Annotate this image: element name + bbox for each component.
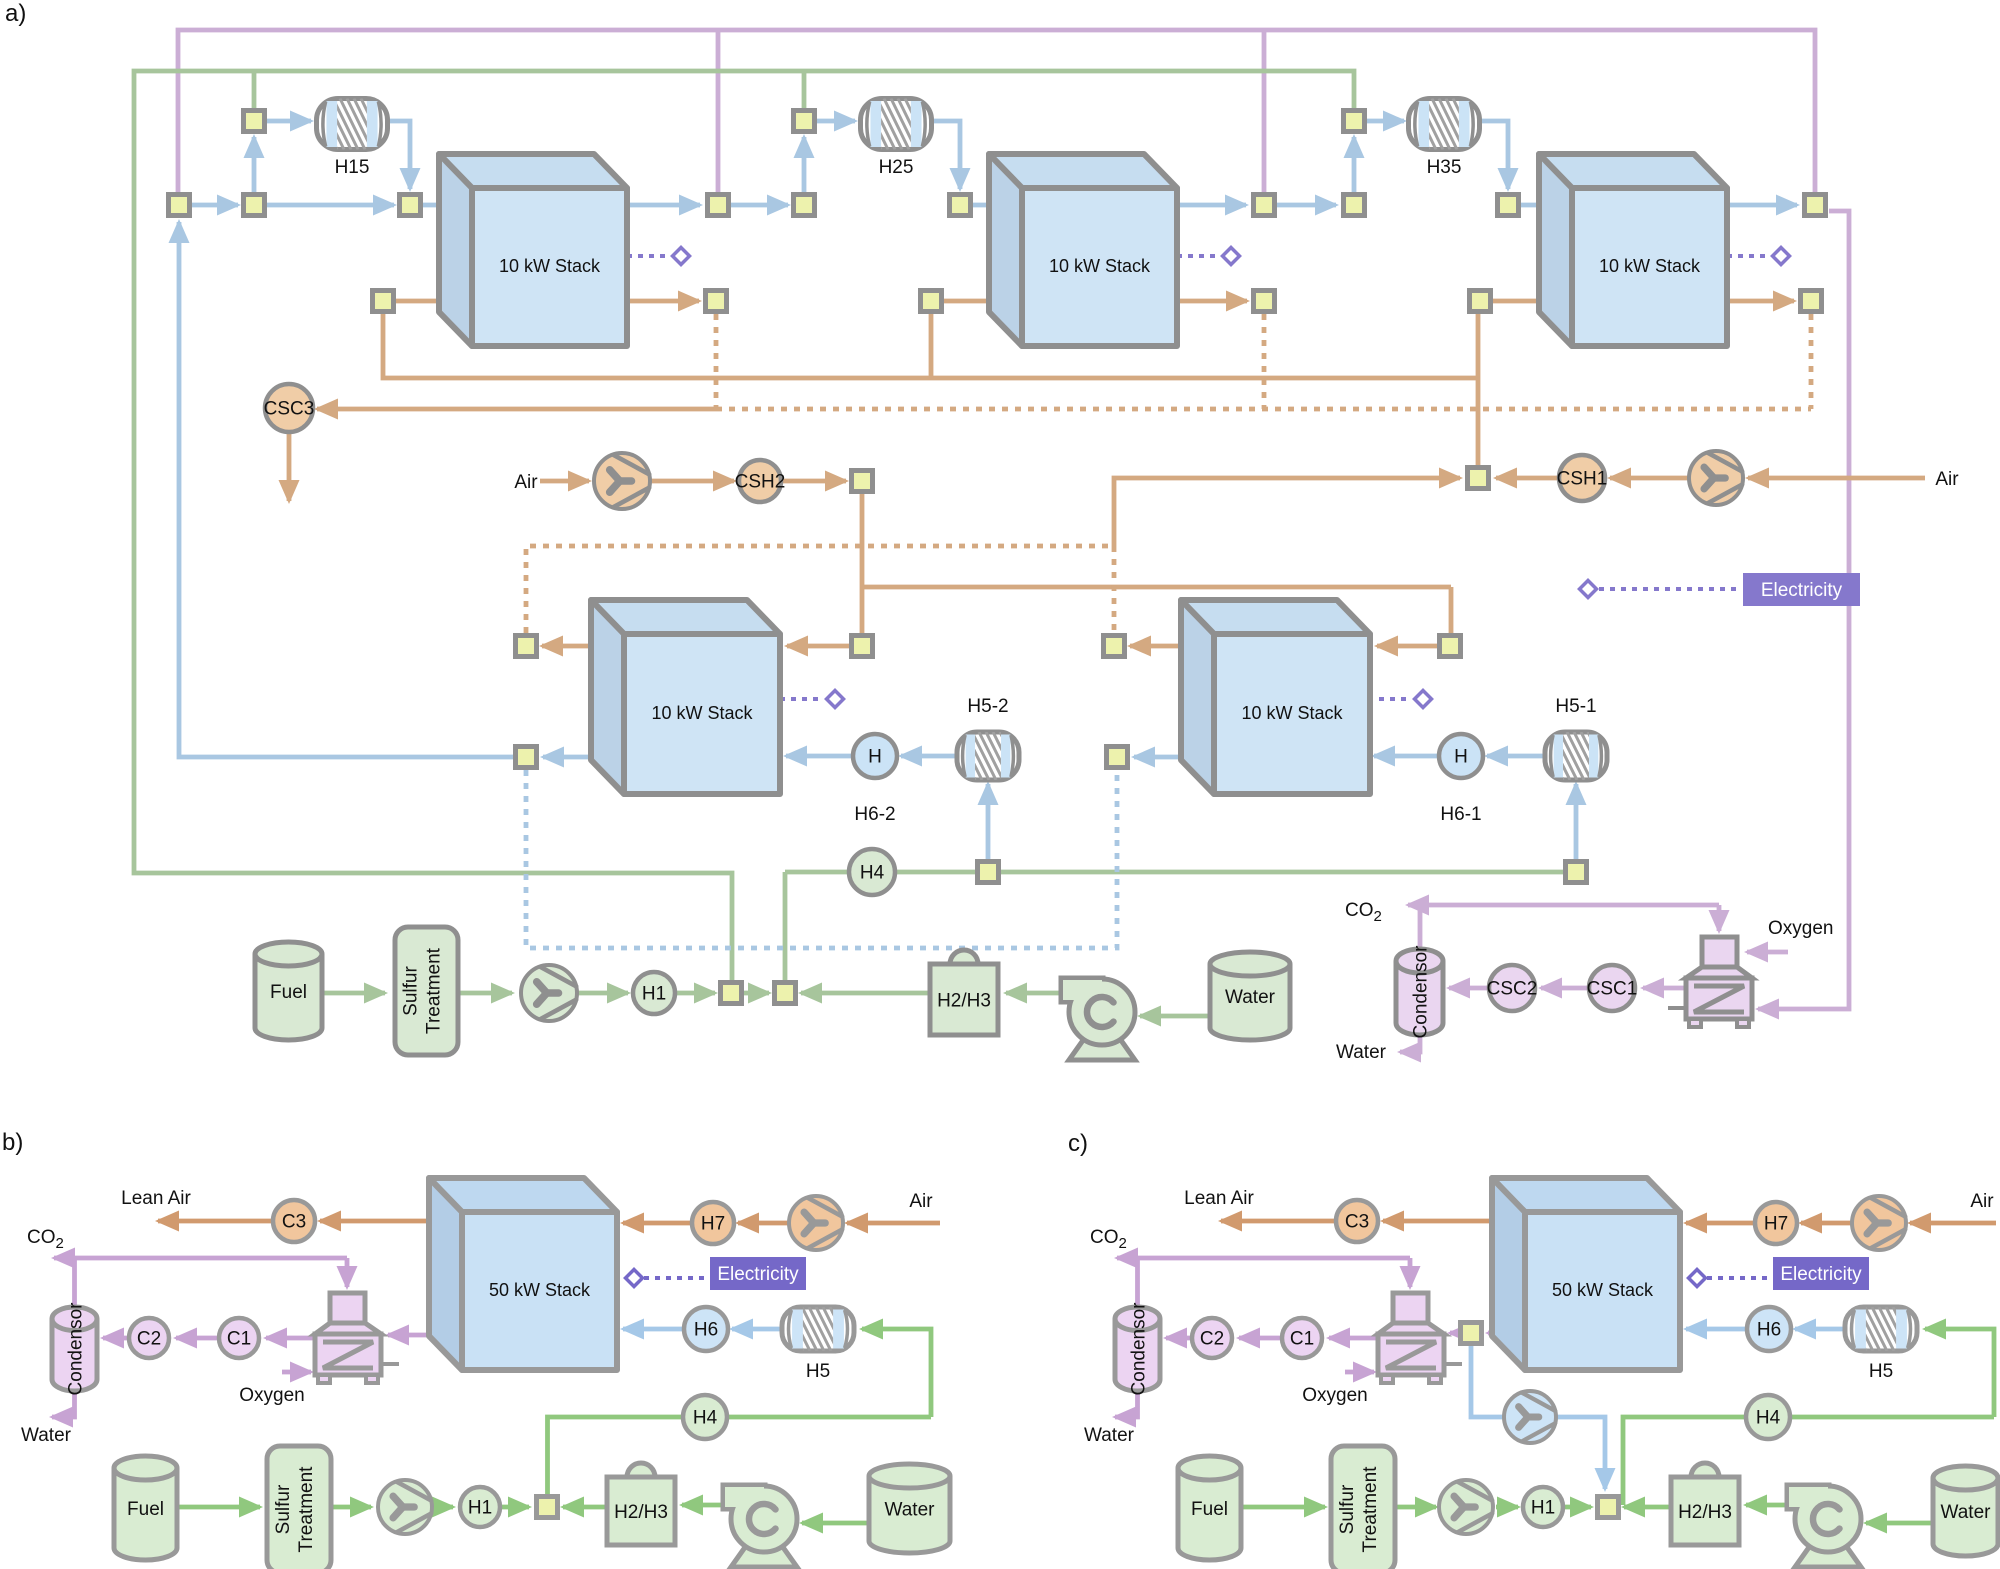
cooler C2 c [1192, 1318, 1232, 1358]
node fuel b [537, 1497, 558, 1518]
stack S2 10kW [989, 154, 1177, 346]
wire CO2 header b [54, 1256, 347, 1261]
cooler C1 [219, 1318, 259, 1358]
svg-text:Oxygen: Oxygen [1302, 1385, 1367, 1406]
node C1n [373, 291, 394, 312]
wire blower-H1 c [1496, 1505, 1518, 1510]
wire H35-A9 [1481, 121, 1508, 189]
node B3 [1344, 111, 1365, 132]
node D2 [852, 636, 873, 657]
wire CSC2-condenser [1449, 986, 1489, 991]
wire sulfur-blower c [1395, 1505, 1436, 1510]
wire CSH2 node down [860, 492, 865, 635]
wire green fuel top loop [134, 71, 1354, 981]
svg-text:C1: C1 [1290, 1329, 1314, 1350]
wire A7-A8 [1277, 203, 1336, 208]
node G1 [721, 983, 742, 1004]
svg-text:H6: H6 [694, 1320, 718, 1341]
wire G1-G2 [744, 991, 769, 996]
svg-text:Fuel: Fuel [127, 1499, 164, 1520]
afterburner c [1393, 1293, 1428, 1323]
node F2 [1566, 862, 1587, 883]
wire stack3-A10 [1727, 203, 1797, 208]
node C3n [921, 291, 942, 312]
heater H6-2 [853, 734, 897, 778]
blower fuel c [1439, 1480, 1493, 1534]
svg-text:Condensor: Condensor [1411, 945, 1432, 1039]
svg-text:H7: H7 [701, 1214, 725, 1235]
node fuel c [1598, 1497, 1619, 1518]
svg-text:Treatment: Treatment [424, 947, 445, 1034]
wire CO2 into burner b [345, 1258, 350, 1287]
wire lean air out [320, 1219, 434, 1224]
svg-text:H7: H7 [1764, 1214, 1788, 1235]
wire cathode exhaust dashed header [716, 407, 1811, 412]
splitter CSC3 [265, 384, 313, 432]
wire H2H3-node c [1624, 1505, 1671, 1510]
svg-text:H6-2: H6-2 [854, 804, 895, 825]
wire water out c [1115, 1391, 1138, 1417]
wire H5-2 to H6-2 [901, 754, 955, 759]
node D1 [516, 636, 537, 657]
svg-text:H1: H1 [1531, 1498, 1555, 1519]
svg-text:Fuel: Fuel [1191, 1499, 1228, 1520]
condenser b [52, 1319, 97, 1391]
electricity diamond stack2 [1223, 248, 1240, 265]
wire condenser top riser [1418, 905, 1423, 947]
wire air recycle dashed drop S5 [1112, 546, 1117, 633]
wire H5-H6 c [1795, 1327, 1843, 1332]
wire C1-C2 c [1239, 1336, 1282, 1341]
heater H7 [692, 1202, 734, 1244]
svg-text:H6-1: H6-1 [1440, 804, 1481, 825]
wire H7-stack c [1686, 1221, 1755, 1226]
node B2 [794, 111, 815, 132]
svg-text:Water: Water [1336, 1042, 1387, 1063]
wire condenser water out [1400, 1035, 1420, 1052]
node A8 [1344, 195, 1365, 216]
wire A2 up to B1 [252, 137, 257, 192]
wire F1 up to H5-2 [986, 784, 991, 861]
reformer H2/H3 c [1691, 1463, 1719, 1477]
wire C2-condenser c [1166, 1336, 1192, 1341]
electricity diamond c [1689, 1270, 1706, 1287]
wire steam riser [783, 872, 788, 981]
electricity diamond stack5 [1415, 691, 1432, 708]
node A3 [400, 195, 421, 216]
wire oxygen c [1345, 1370, 1374, 1375]
wire H2H3-G2 [801, 991, 930, 996]
stack S3 10kW [1539, 154, 1727, 346]
blower air mid [594, 453, 650, 509]
wire burner-C1 b [266, 1336, 315, 1341]
wire blue anode recycle to node A1 [179, 222, 513, 757]
wire stack1-node air out [627, 299, 699, 304]
reformer H2/H3 [950, 950, 978, 964]
wire C2-condenser b [103, 1336, 129, 1341]
wire CSC3 exhaust down [287, 433, 292, 501]
node A4 [708, 195, 729, 216]
wire stack2-node air out [1177, 299, 1247, 304]
wire H4 line b [548, 1417, 932, 1494]
wire H6-stack b [623, 1327, 684, 1332]
svg-text:CSC2: CSC2 [1487, 979, 1538, 1000]
afterburner b [330, 1293, 365, 1323]
svg-text:Water: Water [1084, 1425, 1135, 1446]
wire Fuel-Sulfur [322, 991, 385, 996]
tank Water [1210, 964, 1290, 1040]
wire C3 out [158, 1219, 273, 1224]
wire CSH1-node [1496, 476, 1559, 481]
wire blower-H7 b [738, 1221, 789, 1226]
electricity tap stack1 [627, 254, 670, 258]
wire node-stack3 air in [1493, 299, 1570, 304]
node A10 [1805, 195, 1826, 216]
wire burner-C1 c [1329, 1336, 1378, 1341]
blower air b [789, 1196, 843, 1250]
wire H1-node c [1564, 1505, 1591, 1510]
wire CO2 into burner [1717, 905, 1722, 931]
svg-text:10 kW Stack: 10 kW Stack [651, 703, 753, 723]
wire A3-stack1 [423, 203, 470, 208]
svg-text:Condensor: Condensor [1129, 1302, 1150, 1396]
svg-text:CSH1: CSH1 [1557, 469, 1608, 490]
node A2 [244, 195, 265, 216]
blower fuel [521, 965, 577, 1021]
pump water [1069, 1036, 1135, 1060]
wire A8 up to B3 [1352, 137, 1357, 192]
svg-text:Water: Water [21, 1425, 72, 1446]
node A9 [1498, 195, 1519, 216]
wire air riser stack2 [929, 314, 934, 378]
node C4n [1254, 291, 1275, 312]
sulfur c [1331, 1446, 1395, 1569]
heater CSH1 [1559, 455, 1605, 501]
svg-text:Sulfur: Sulfur [401, 966, 422, 1016]
cooler C2 [129, 1318, 169, 1358]
blower recirc c [1504, 1391, 1556, 1443]
svg-text:C3: C3 [1345, 1212, 1369, 1233]
wire A5 up to B2 [802, 137, 807, 192]
svg-text:b): b) [2, 1129, 23, 1156]
wire pump-H2H3 c [1746, 1503, 1787, 1508]
node A1 [169, 195, 190, 216]
wire H5-1 to H6-1 [1487, 754, 1543, 759]
svg-text:C1: C1 [227, 1329, 251, 1350]
node stack-out c [1461, 1323, 1482, 1344]
wire H2H3-node b [563, 1505, 607, 1510]
svg-text:H: H [1454, 747, 1468, 768]
svg-text:H5: H5 [806, 1361, 830, 1382]
pump b [731, 1543, 797, 1567]
node G2 [775, 983, 796, 1004]
wire A1-A2 [192, 203, 238, 208]
electricity box c [1773, 1257, 1869, 1290]
reformer H2/H3 b [627, 1463, 655, 1477]
heater H4 c [1746, 1395, 1790, 1439]
heater H1 [633, 972, 675, 1014]
svg-text:H4: H4 [1756, 1408, 1781, 1429]
heater CSH2 [739, 460, 781, 502]
svg-text:Treatment: Treatment [296, 1466, 317, 1553]
wire A4-A5 [731, 203, 788, 208]
wire H7-stack b [623, 1221, 692, 1226]
svg-text:50 kW Stack: 50 kW Stack [1552, 1280, 1654, 1300]
wire purple drop to node stack2-out [1262, 30, 1267, 192]
wire CO2 header c [1117, 1256, 1410, 1261]
svg-text:Electricity: Electricity [717, 1264, 799, 1285]
svg-text:H4: H4 [693, 1408, 718, 1429]
wire H4 line c [1623, 1417, 1994, 1505]
cooler C3 c [1336, 1200, 1378, 1242]
wire water-pump [1140, 1014, 1210, 1019]
wire water-pump c [1866, 1521, 1933, 1526]
wire dashed drop stack1-out [714, 314, 719, 409]
electricity diamond stack4 [827, 691, 844, 708]
wire B3-H35 [1367, 119, 1404, 124]
svg-text:CSH2: CSH2 [735, 472, 786, 493]
wire green drop H25 node [802, 71, 807, 108]
electricity dash c [1707, 1276, 1771, 1280]
wire D4-stack5 air in [1377, 644, 1437, 649]
wire Air-blower1 [1748, 476, 1925, 481]
wire CO2 into burner c [1408, 1258, 1413, 1287]
svg-text:Air: Air [514, 472, 538, 493]
wire air main vertical x1478 [1476, 314, 1481, 467]
stack S4 10kW [591, 600, 780, 794]
svg-text:10 kW Stack: 10 kW Stack [1049, 256, 1151, 276]
wire purple node to afterburner [1758, 211, 1849, 1009]
electricity dash b [644, 1276, 708, 1280]
tank Water b [869, 1476, 950, 1553]
svg-text:Water: Water [1225, 987, 1276, 1008]
blower fuel b [378, 1480, 432, 1534]
svg-text:Sulfur: Sulfur [273, 1484, 294, 1534]
svg-text:C2: C2 [137, 1329, 161, 1350]
wire oxygen in [1747, 950, 1788, 955]
stack 50kW b [429, 1178, 617, 1370]
node E1 [516, 747, 537, 768]
svg-text:Electricity: Electricity [1761, 580, 1843, 601]
wire stack5 fuel out [1134, 755, 1181, 760]
wire oxygen b [282, 1370, 311, 1375]
heater H6-1 [1439, 734, 1483, 778]
wire cathode exhaust solid to CSC3 [317, 407, 716, 412]
svg-text:H5-1: H5-1 [1555, 696, 1596, 717]
wire H25-A6 [932, 121, 960, 189]
wire dashed drop stack2-out [1262, 314, 1267, 409]
heater H4 b [683, 1395, 727, 1439]
wire steam header H4 [785, 870, 1563, 875]
stack S1 10kW [439, 154, 627, 346]
wire condenser riser b [72, 1258, 77, 1305]
node D4 [1440, 636, 1461, 657]
sulfur b [267, 1446, 331, 1569]
svg-text:Water: Water [1941, 1502, 1992, 1523]
wire air supply header y378 [383, 314, 1478, 378]
heater H1 b [460, 1487, 500, 1527]
electricity tap stack3 [1727, 254, 1770, 258]
wire blower-H7 c [1801, 1221, 1852, 1226]
wire dashed drop stack3-out [1809, 314, 1814, 409]
svg-text:H15: H15 [335, 157, 370, 178]
node A6 [950, 195, 971, 216]
heater H1 c [1523, 1487, 1563, 1527]
wire air header drop to D4 [1449, 587, 1454, 635]
node E2 [1107, 747, 1128, 768]
svg-text:c): c) [1068, 1130, 1088, 1157]
wire H6-2 to stack4 [786, 754, 853, 759]
node C2n [706, 291, 727, 312]
condenser [1396, 961, 1443, 1035]
svg-text:C3: C3 [282, 1212, 306, 1233]
wire green drop H15 node [252, 71, 257, 108]
svg-text:10 kW Stack: 10 kW Stack [1241, 703, 1343, 723]
heater H6 [684, 1307, 728, 1351]
wire node-stack2 air in [944, 299, 1020, 304]
wire stack4-D1 air out [542, 644, 591, 649]
wire H1-G1 [676, 991, 715, 996]
wire H5-H6 b [732, 1327, 780, 1332]
wire purple exhaust top loop [178, 30, 1815, 192]
svg-text:H4: H4 [860, 863, 885, 884]
electricity diamond stack1 [673, 248, 690, 265]
wire stack1-A4 [627, 203, 700, 208]
electricity box b [710, 1257, 806, 1290]
wire stack4 fuel out [543, 755, 591, 760]
svg-text:Sulfur: Sulfur [1337, 1484, 1358, 1534]
node C5n [1470, 291, 1491, 312]
wire stack3-node air out [1727, 299, 1794, 304]
wire lean air out c [1383, 1219, 1497, 1224]
wire F2 up to H5-1 [1574, 784, 1579, 861]
wire H6-stack c [1686, 1327, 1747, 1332]
svg-text:Condensor: Condensor [66, 1302, 87, 1396]
electricity legend diamond [1580, 581, 1597, 598]
wire stack-burner b [388, 1333, 430, 1338]
blower air right [1689, 451, 1743, 505]
wire fuel-sulfur b [177, 1505, 260, 1510]
wire stack2-A7 [1177, 203, 1246, 208]
electricity diamond b [626, 1270, 643, 1287]
wire B1-H15 [267, 119, 311, 124]
blower air c [1852, 1196, 1906, 1250]
stack 50kW c [1492, 1178, 1680, 1370]
wire C3 out c [1221, 1219, 1336, 1224]
tank Fuel c [1178, 1468, 1241, 1560]
pump c [1795, 1543, 1861, 1567]
wire water-pump b [802, 1521, 869, 1526]
wire pump-H2H3 [1006, 991, 1060, 996]
condenser c [1115, 1319, 1160, 1391]
svg-text:Electricity: Electricity [1780, 1264, 1862, 1285]
wire blower-H1 b [432, 1505, 453, 1510]
wire air recycle solid riser [1114, 478, 1460, 546]
wire Air-blower2 [540, 479, 589, 484]
svg-text:Fuel: Fuel [270, 982, 307, 1003]
svg-text:Oxygen: Oxygen [239, 1385, 304, 1406]
wire stack-node c [1488, 1331, 1492, 1336]
wire sulfur-blower b [331, 1505, 371, 1510]
svg-text:10 kW Stack: 10 kW Stack [1599, 256, 1701, 276]
node D3 [1104, 636, 1125, 657]
wire A9-stack3 [1521, 203, 1570, 208]
wire purple drop to node stack1-out [716, 30, 721, 192]
wire A6-stack2 [973, 203, 1020, 208]
wire D2-stack4 air in [787, 644, 849, 649]
wire green H5 feed b [862, 1329, 931, 1417]
heater H7 c [1755, 1202, 1797, 1244]
svg-text:CSC3: CSC3 [264, 399, 315, 420]
wire pump-H2H3 b [682, 1503, 723, 1508]
wire CSC1-CSC2 [1541, 986, 1589, 991]
wire blower2-CSH2 [650, 479, 734, 484]
svg-text:a): a) [5, 0, 26, 27]
electricity diamond stack3 [1773, 248, 1790, 265]
wire air cross header y587 [862, 585, 1451, 590]
wire air recycle dashed header y546 [526, 546, 1114, 633]
electricity legend box [1743, 573, 1860, 606]
cooler CSC1 [1589, 965, 1635, 1011]
cooler CSC2 [1489, 965, 1535, 1011]
wire burner-CSC1 [1643, 986, 1686, 991]
heater H6 c [1747, 1307, 1791, 1351]
svg-text:Air: Air [909, 1191, 933, 1212]
svg-text:Lean Air: Lean Air [121, 1188, 191, 1209]
svg-text:H2/H3: H2/H3 [1678, 1502, 1732, 1523]
wire H15-A3 [388, 121, 410, 189]
svg-text:H2/H3: H2/H3 [614, 1502, 668, 1523]
svg-text:CSC1: CSC1 [1587, 979, 1638, 1000]
svg-text:Oxygen: Oxygen [1768, 918, 1833, 939]
svg-text:Air: Air [1970, 1191, 1994, 1212]
wire CO2 header [1408, 903, 1719, 908]
tank Fuel b [114, 1468, 177, 1560]
svg-text:Lean Air: Lean Air [1184, 1188, 1254, 1209]
heater H4 [849, 849, 895, 895]
svg-text:H25: H25 [879, 157, 914, 178]
wire blower-H1 [577, 991, 628, 996]
wire stack5-D3 air out [1130, 644, 1181, 649]
svg-text:H2/H3: H2/H3 [937, 991, 991, 1012]
wire dashed anode link U [526, 770, 1117, 948]
node CSH2n [852, 471, 873, 492]
node CSH1n [1468, 468, 1489, 489]
wire air in c [1910, 1221, 1996, 1226]
svg-text:H: H [868, 747, 882, 768]
wire node-burner c [1450, 1331, 1458, 1336]
node F1 [978, 862, 999, 883]
electricity tap stack4 [780, 697, 824, 701]
wire CSH2-node [781, 479, 846, 484]
wire B2-H25 [817, 119, 855, 124]
wire condenser riser c [1135, 1258, 1140, 1305]
svg-text:10 kW Stack: 10 kW Stack [499, 256, 601, 276]
svg-text:H5-2: H5-2 [967, 696, 1008, 717]
svg-text:50 kW Stack: 50 kW Stack [489, 1280, 591, 1300]
wire A2-A3 [267, 203, 394, 208]
wire node-stack1 air in [396, 299, 470, 304]
svg-text:Air: Air [1935, 469, 1959, 490]
tank Fuel [255, 954, 322, 1040]
wire air in b [847, 1221, 940, 1226]
svg-text:H5: H5 [1869, 1361, 1893, 1382]
svg-text:C2: C2 [1200, 1329, 1224, 1350]
svg-text:H1: H1 [468, 1498, 492, 1519]
wire fuel-sulfur c [1241, 1505, 1325, 1510]
stack S5 10kW [1181, 600, 1370, 794]
svg-text:Water: Water [885, 1500, 936, 1521]
